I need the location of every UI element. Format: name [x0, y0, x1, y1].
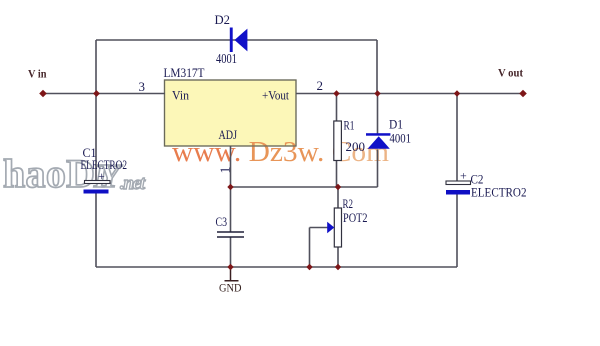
svg-text:POT2: POT2	[343, 211, 368, 225]
svg-text:R2: R2	[343, 197, 354, 211]
svg-text:+: +	[98, 169, 105, 183]
svg-text:LM317T: LM317T	[164, 65, 205, 80]
svg-text:D1: D1	[389, 118, 403, 132]
svg-text:ELECTRO2: ELECTRO2	[471, 186, 527, 200]
svg-text:C3: C3	[216, 215, 228, 229]
svg-text:.net: .net	[120, 173, 146, 194]
svg-text:R1: R1	[344, 119, 355, 133]
svg-text:V in: V in	[28, 67, 47, 81]
svg-text:1: 1	[219, 167, 234, 174]
svg-text:V out: V out	[498, 66, 523, 80]
svg-text:2: 2	[317, 78, 324, 93]
svg-text:D2: D2	[215, 13, 231, 27]
svg-text:Vin: Vin	[172, 89, 190, 103]
svg-text:C2: C2	[471, 173, 484, 187]
svg-text:+Vout: +Vout	[262, 89, 289, 103]
svg-text:GND: GND	[219, 280, 242, 294]
svg-text:4001: 4001	[390, 131, 412, 146]
svg-text:3: 3	[139, 79, 146, 94]
svg-text:4001: 4001	[216, 51, 237, 66]
svg-text:+: +	[460, 168, 467, 182]
svg-text:ADJ: ADJ	[219, 128, 238, 142]
svg-text:200: 200	[346, 139, 366, 154]
